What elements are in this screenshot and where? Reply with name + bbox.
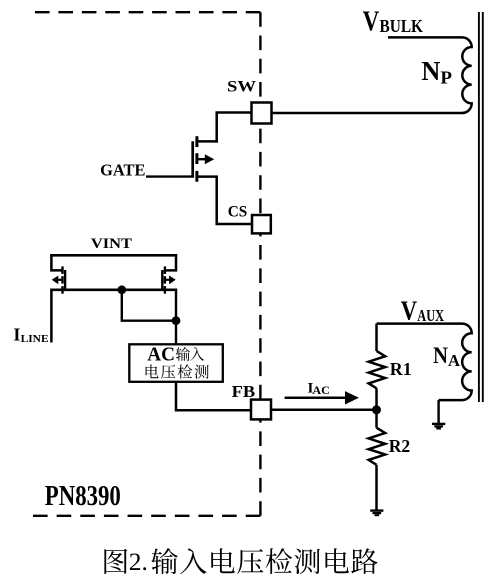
pin SW bbox=[252, 103, 272, 124]
IC boundary dashed box (PN8390 outline) bbox=[33, 12, 260, 516]
label V_BULK bbox=[363, 6, 424, 38]
winding NP primary (with V_BULK feed wire) bbox=[388, 37, 472, 113]
label I_LINE bbox=[13, 325, 48, 345]
wire NA to ground bbox=[437, 400, 439, 423]
wire FB pin to divider node bbox=[271, 409, 377, 412]
pin FB bbox=[251, 400, 271, 420]
label V_AUX bbox=[401, 295, 444, 325]
wire SW pin to Q1 drain bbox=[217, 113, 252, 143]
svg-text:I: I bbox=[13, 325, 20, 345]
arrow I_AC current direction bbox=[285, 391, 359, 404]
label I_AC bbox=[308, 381, 330, 397]
svg-text:AC: AC bbox=[312, 385, 330, 397]
node divider junction dot bbox=[372, 405, 381, 414]
block AC input voltage detector bbox=[129, 344, 223, 382]
svg-text:VINT: VINT bbox=[91, 235, 132, 252]
label N_P bbox=[421, 56, 452, 87]
svg-text:N: N bbox=[421, 56, 440, 86]
svg-text:BULK: BULK bbox=[380, 16, 424, 36]
svg-text:PN8390: PN8390 bbox=[45, 481, 121, 512]
wire junction A to junction B bbox=[122, 290, 176, 321]
ground NA bbox=[432, 424, 445, 429]
wire I_LINE lead bbox=[50, 290, 53, 343]
winding NA auxiliary (with V_AUX top wire) bbox=[377, 324, 472, 401]
wire mirror common gate/source rail bbox=[50, 288, 177, 291]
svg-text:N: N bbox=[433, 343, 448, 368]
transistor M2 right mirror bbox=[162, 255, 176, 294]
resistor R2 bbox=[369, 410, 386, 510]
svg-text:GATE: GATE bbox=[100, 161, 145, 180]
svg-text:V: V bbox=[401, 295, 418, 325]
svg-text:R1: R1 bbox=[390, 359, 412, 379]
label N_A bbox=[433, 343, 461, 370]
transistor Q1 power MOSFET bbox=[146, 136, 218, 182]
svg-text:AC: AC bbox=[147, 344, 175, 365]
svg-text:2.: 2. bbox=[129, 547, 148, 576]
svg-text:SW: SW bbox=[227, 79, 256, 96]
svg-text:LINE: LINE bbox=[21, 334, 49, 345]
resistor R1 bbox=[369, 324, 386, 410]
transformer core (double line) bbox=[479, 12, 483, 402]
label AC输入 bbox=[147, 344, 204, 365]
svg-text:CS: CS bbox=[228, 204, 248, 221]
svg-text:A: A bbox=[448, 351, 461, 370]
node junction dot B bbox=[172, 316, 181, 325]
wire SW pin to NP winding bbox=[271, 112, 463, 115]
wire VINT rail bbox=[50, 254, 177, 257]
svg-text:FB: FB bbox=[232, 382, 256, 401]
label 电压检测 bbox=[146, 364, 209, 378]
transistor M1 left mirror bbox=[51, 255, 65, 294]
node junction dot A (mirror rail) bbox=[117, 285, 126, 294]
wire AC detector to FB pin bbox=[176, 382, 252, 410]
svg-text:R2: R2 bbox=[389, 436, 411, 456]
svg-text:V: V bbox=[363, 6, 380, 38]
pin CS bbox=[252, 215, 271, 233]
caption 图2. 输入电压检测电路 bbox=[104, 547, 377, 576]
ground R2 bbox=[370, 511, 383, 516]
svg-text:P: P bbox=[440, 67, 452, 87]
wire Q1 source to CS pin bbox=[217, 177, 253, 224]
wire mirror output to AC detector bbox=[175, 290, 177, 345]
svg-text:AUX: AUX bbox=[417, 306, 444, 325]
